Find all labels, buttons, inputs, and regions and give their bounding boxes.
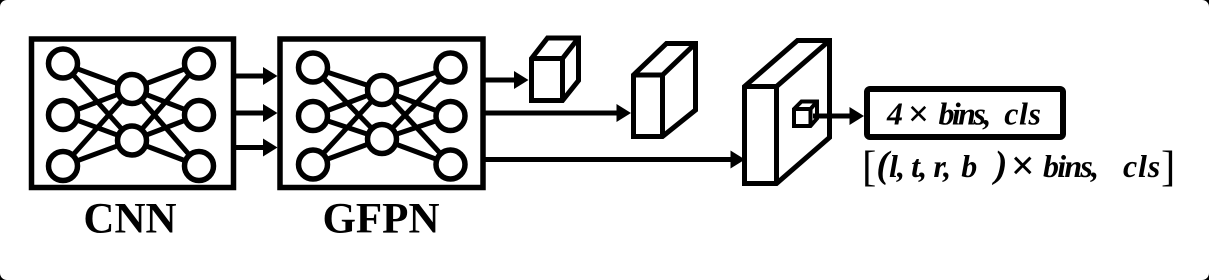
svg-text:GFPN: GFPN: [322, 196, 439, 243]
svg-text:CNN: CNN: [83, 196, 176, 243]
svg-text:[(l, t, r, b ) × bins, cls]: [(l, t, r, b ) × bins, cls]: [862, 143, 1175, 190]
svg-text:4× bins, cls: 4× bins, cls: [886, 94, 1042, 135]
